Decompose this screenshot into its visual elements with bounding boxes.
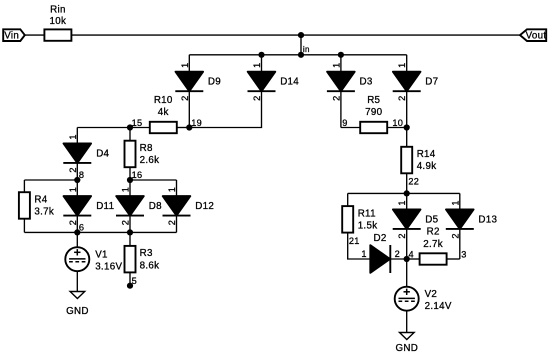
svg-text:D9: D9 bbox=[208, 77, 221, 88]
svg-text:R3: R3 bbox=[140, 248, 153, 259]
svg-text:9: 9 bbox=[342, 118, 347, 128]
diode D2 bbox=[370, 245, 390, 273]
wire node 4 to V2 bbox=[406, 259, 408, 287]
diode D4 bbox=[63, 143, 91, 163]
svg-text:3.7k: 3.7k bbox=[34, 207, 54, 218]
wire D14 cathode to node 19 bbox=[189, 91, 261, 127]
ground GND left bbox=[70, 292, 85, 299]
junction node 8 bbox=[74, 177, 80, 183]
wire node n drop bbox=[300, 35, 302, 55]
svg-text:in: in bbox=[303, 45, 310, 54]
svg-text:1: 1 bbox=[397, 62, 407, 67]
svg-text:D4: D4 bbox=[96, 148, 109, 159]
wire D8 anode lead bbox=[129, 180, 131, 196]
svg-text:D8: D8 bbox=[149, 201, 162, 212]
wire R11 top lead bbox=[347, 193, 349, 206]
diode D12 bbox=[163, 196, 191, 216]
svg-text:V2: V2 bbox=[425, 289, 438, 300]
wire R14 to node 22 bbox=[406, 173, 408, 193]
svg-text:D5: D5 bbox=[425, 214, 438, 225]
wire D13 cathode to node 3 bbox=[459, 229, 461, 259]
wire D13 anode lead bbox=[459, 193, 461, 209]
svg-text:8: 8 bbox=[79, 170, 84, 180]
svg-text:2.14V: 2.14V bbox=[425, 301, 452, 312]
wire D5 anode lead bbox=[406, 193, 408, 209]
svg-text:2: 2 bbox=[331, 95, 341, 100]
svg-text:GND: GND bbox=[395, 343, 418, 354]
svg-text:Vout: Vout bbox=[526, 31, 547, 42]
wire D12 cathode to node 6 rail bbox=[176, 216, 178, 233]
junction node 4 bbox=[404, 256, 410, 262]
junction on top rail at node n bbox=[298, 32, 304, 38]
diode D5 bbox=[393, 209, 421, 229]
wire D12 anode lead bbox=[176, 180, 178, 196]
svg-text:V1: V1 bbox=[95, 250, 108, 261]
svg-text:1: 1 bbox=[167, 187, 177, 192]
wire node 16 to D12 column bbox=[130, 179, 177, 181]
wire R2 to node 3 bbox=[447, 258, 460, 260]
svg-text:2: 2 bbox=[450, 233, 460, 238]
svg-text:D13: D13 bbox=[478, 214, 497, 225]
svg-text:1: 1 bbox=[361, 249, 366, 259]
junction node 16 bbox=[127, 177, 133, 183]
svg-text:2: 2 bbox=[180, 95, 190, 100]
junction D3 top bbox=[338, 52, 344, 58]
wire D2 cathode to node 4 bbox=[390, 258, 406, 260]
wire R5 to node 10 bbox=[387, 127, 407, 129]
junction node 22 bbox=[404, 190, 410, 196]
wire D14 anode lead bbox=[261, 55, 263, 72]
svg-text:R4: R4 bbox=[34, 195, 47, 206]
wire R4 bottom lead bbox=[23, 219, 25, 233]
wire D11 anode lead bbox=[76, 180, 78, 196]
wire D3 cathode to node 9 bbox=[340, 91, 342, 127]
junction D14 top bbox=[258, 52, 264, 58]
wire R10 to node 19 bbox=[177, 127, 189, 129]
wire D4 anode lead bbox=[76, 128, 78, 144]
svg-text:2: 2 bbox=[395, 249, 400, 259]
wire V2 to ground bbox=[406, 310, 408, 332]
resistor R3 bbox=[125, 246, 136, 273]
junction node 15 bbox=[127, 124, 133, 130]
svg-text:4.9k: 4.9k bbox=[417, 161, 437, 172]
svg-text:1: 1 bbox=[397, 200, 407, 205]
diode D13 bbox=[446, 209, 474, 229]
wire node 15 to R8 bbox=[129, 128, 131, 141]
resistor R2 bbox=[420, 253, 447, 264]
wire V1 to ground bbox=[76, 271, 78, 291]
wire D11 cathode to node 6 rail bbox=[76, 216, 78, 233]
svg-text:2: 2 bbox=[167, 220, 177, 225]
svg-text:D11: D11 bbox=[96, 201, 114, 212]
svg-text:2.7k: 2.7k bbox=[423, 239, 443, 250]
wire D9 anode lead bbox=[188, 55, 190, 72]
svg-text:5: 5 bbox=[132, 276, 137, 286]
svg-text:19: 19 bbox=[191, 118, 202, 128]
wire node 8 to R4 bbox=[24, 179, 77, 181]
svg-text:16: 16 bbox=[132, 170, 143, 180]
svg-text:2: 2 bbox=[68, 167, 78, 172]
wire D7 anode lead bbox=[406, 55, 408, 72]
wire node 6 to R3 bbox=[129, 232, 131, 246]
svg-text:4k: 4k bbox=[158, 107, 169, 118]
svg-text:2: 2 bbox=[397, 233, 407, 238]
svg-text:2: 2 bbox=[397, 95, 407, 100]
wire second rail node n bbox=[189, 54, 406, 56]
svg-text:1: 1 bbox=[252, 62, 262, 67]
terminal node 5 bbox=[127, 283, 133, 289]
svg-text:D12: D12 bbox=[195, 201, 214, 212]
resistor R14 bbox=[401, 147, 412, 174]
resistor R11 bbox=[342, 206, 353, 233]
svg-text:D14: D14 bbox=[280, 77, 299, 88]
svg-text:10: 10 bbox=[392, 118, 403, 128]
diode D11 bbox=[63, 196, 91, 216]
diode D7 bbox=[393, 72, 421, 92]
port Vout bbox=[520, 29, 546, 41]
svg-text:2: 2 bbox=[121, 220, 131, 225]
svg-text:1: 1 bbox=[180, 62, 190, 67]
wire D8 cathode to node 6 rail bbox=[129, 216, 131, 233]
diode D14 bbox=[248, 72, 276, 92]
ground GND right bbox=[400, 333, 415, 340]
wire node 15 to D4 column bbox=[77, 127, 130, 129]
svg-text:2.6k: 2.6k bbox=[140, 155, 160, 166]
junction node n on second rail bbox=[298, 52, 304, 58]
wire D4 cathode to node 8 bbox=[76, 163, 78, 180]
svg-text:R2: R2 bbox=[427, 226, 440, 237]
svg-text:2: 2 bbox=[68, 220, 78, 225]
wire D7 cathode to R14 bbox=[406, 91, 408, 147]
svg-text:R10: R10 bbox=[154, 95, 173, 106]
diode D8 bbox=[116, 196, 144, 216]
svg-text:1: 1 bbox=[450, 200, 460, 205]
svg-text:R8: R8 bbox=[140, 143, 153, 154]
wire D3 anode lead bbox=[340, 55, 342, 72]
svg-text:4: 4 bbox=[409, 249, 414, 259]
svg-text:15: 15 bbox=[132, 118, 143, 128]
wire Rin to Vout bbox=[71, 34, 520, 36]
svg-text:Rin: Rin bbox=[50, 5, 66, 16]
svg-text:3.16V: 3.16V bbox=[95, 262, 122, 273]
wire D9 cathode to node 19 bbox=[188, 91, 190, 127]
wire node 15 to R10 bbox=[130, 127, 150, 129]
resistor R5 bbox=[360, 122, 387, 133]
svg-text:GND: GND bbox=[66, 306, 89, 317]
svg-text:790: 790 bbox=[365, 107, 382, 118]
svg-text:21: 21 bbox=[349, 236, 360, 246]
svg-text:R5: R5 bbox=[367, 95, 380, 106]
wire R8 to node 16 bbox=[129, 167, 131, 180]
svg-text:10k: 10k bbox=[50, 16, 67, 27]
svg-text:6: 6 bbox=[79, 222, 84, 232]
svg-text:D2: D2 bbox=[374, 233, 387, 244]
voltage source V2 bbox=[395, 287, 419, 311]
voltage source V1 bbox=[65, 247, 89, 271]
wire node 6 to V1 bbox=[76, 232, 78, 247]
svg-text:1.5k: 1.5k bbox=[358, 220, 378, 231]
wire node 9 to R5 bbox=[341, 127, 361, 129]
resistor R8 bbox=[125, 141, 136, 168]
svg-text:D3: D3 bbox=[360, 77, 373, 88]
diode D9 bbox=[175, 72, 203, 92]
wire node 4 to R2 bbox=[407, 258, 420, 260]
wire R3 to node 5 bbox=[129, 272, 131, 285]
resistor R10 bbox=[150, 122, 177, 133]
wire node 22 rail bbox=[348, 192, 460, 194]
diode D3 bbox=[327, 72, 355, 92]
svg-text:22: 22 bbox=[408, 176, 419, 186]
svg-text:8.6k: 8.6k bbox=[140, 260, 160, 271]
resistor R4 bbox=[19, 192, 30, 219]
svg-text:3: 3 bbox=[461, 249, 466, 259]
wire R11 to D2 anode bbox=[348, 233, 371, 259]
svg-text:R14: R14 bbox=[417, 149, 436, 160]
port Vin bbox=[3, 29, 25, 41]
wire R4 top lead bbox=[23, 180, 25, 192]
junction node 6 at R3 bbox=[127, 229, 133, 235]
svg-text:1: 1 bbox=[331, 62, 341, 67]
junction node 10 bbox=[404, 124, 410, 130]
junction node 19 bbox=[186, 124, 192, 130]
wire node 6 rail bbox=[24, 231, 176, 233]
svg-text:1: 1 bbox=[121, 187, 131, 192]
svg-text:Vin: Vin bbox=[4, 31, 19, 42]
junction node 6 bbox=[74, 229, 80, 235]
wire D5 cathode to node 4 bbox=[406, 229, 408, 259]
svg-text:2: 2 bbox=[252, 95, 262, 100]
svg-text:1: 1 bbox=[68, 134, 78, 139]
wire Vin to Rin bbox=[25, 34, 45, 36]
svg-text:D7: D7 bbox=[425, 77, 438, 88]
resistor Rin bbox=[44, 29, 71, 40]
svg-text:R11: R11 bbox=[358, 208, 376, 219]
svg-text:1: 1 bbox=[68, 187, 78, 192]
